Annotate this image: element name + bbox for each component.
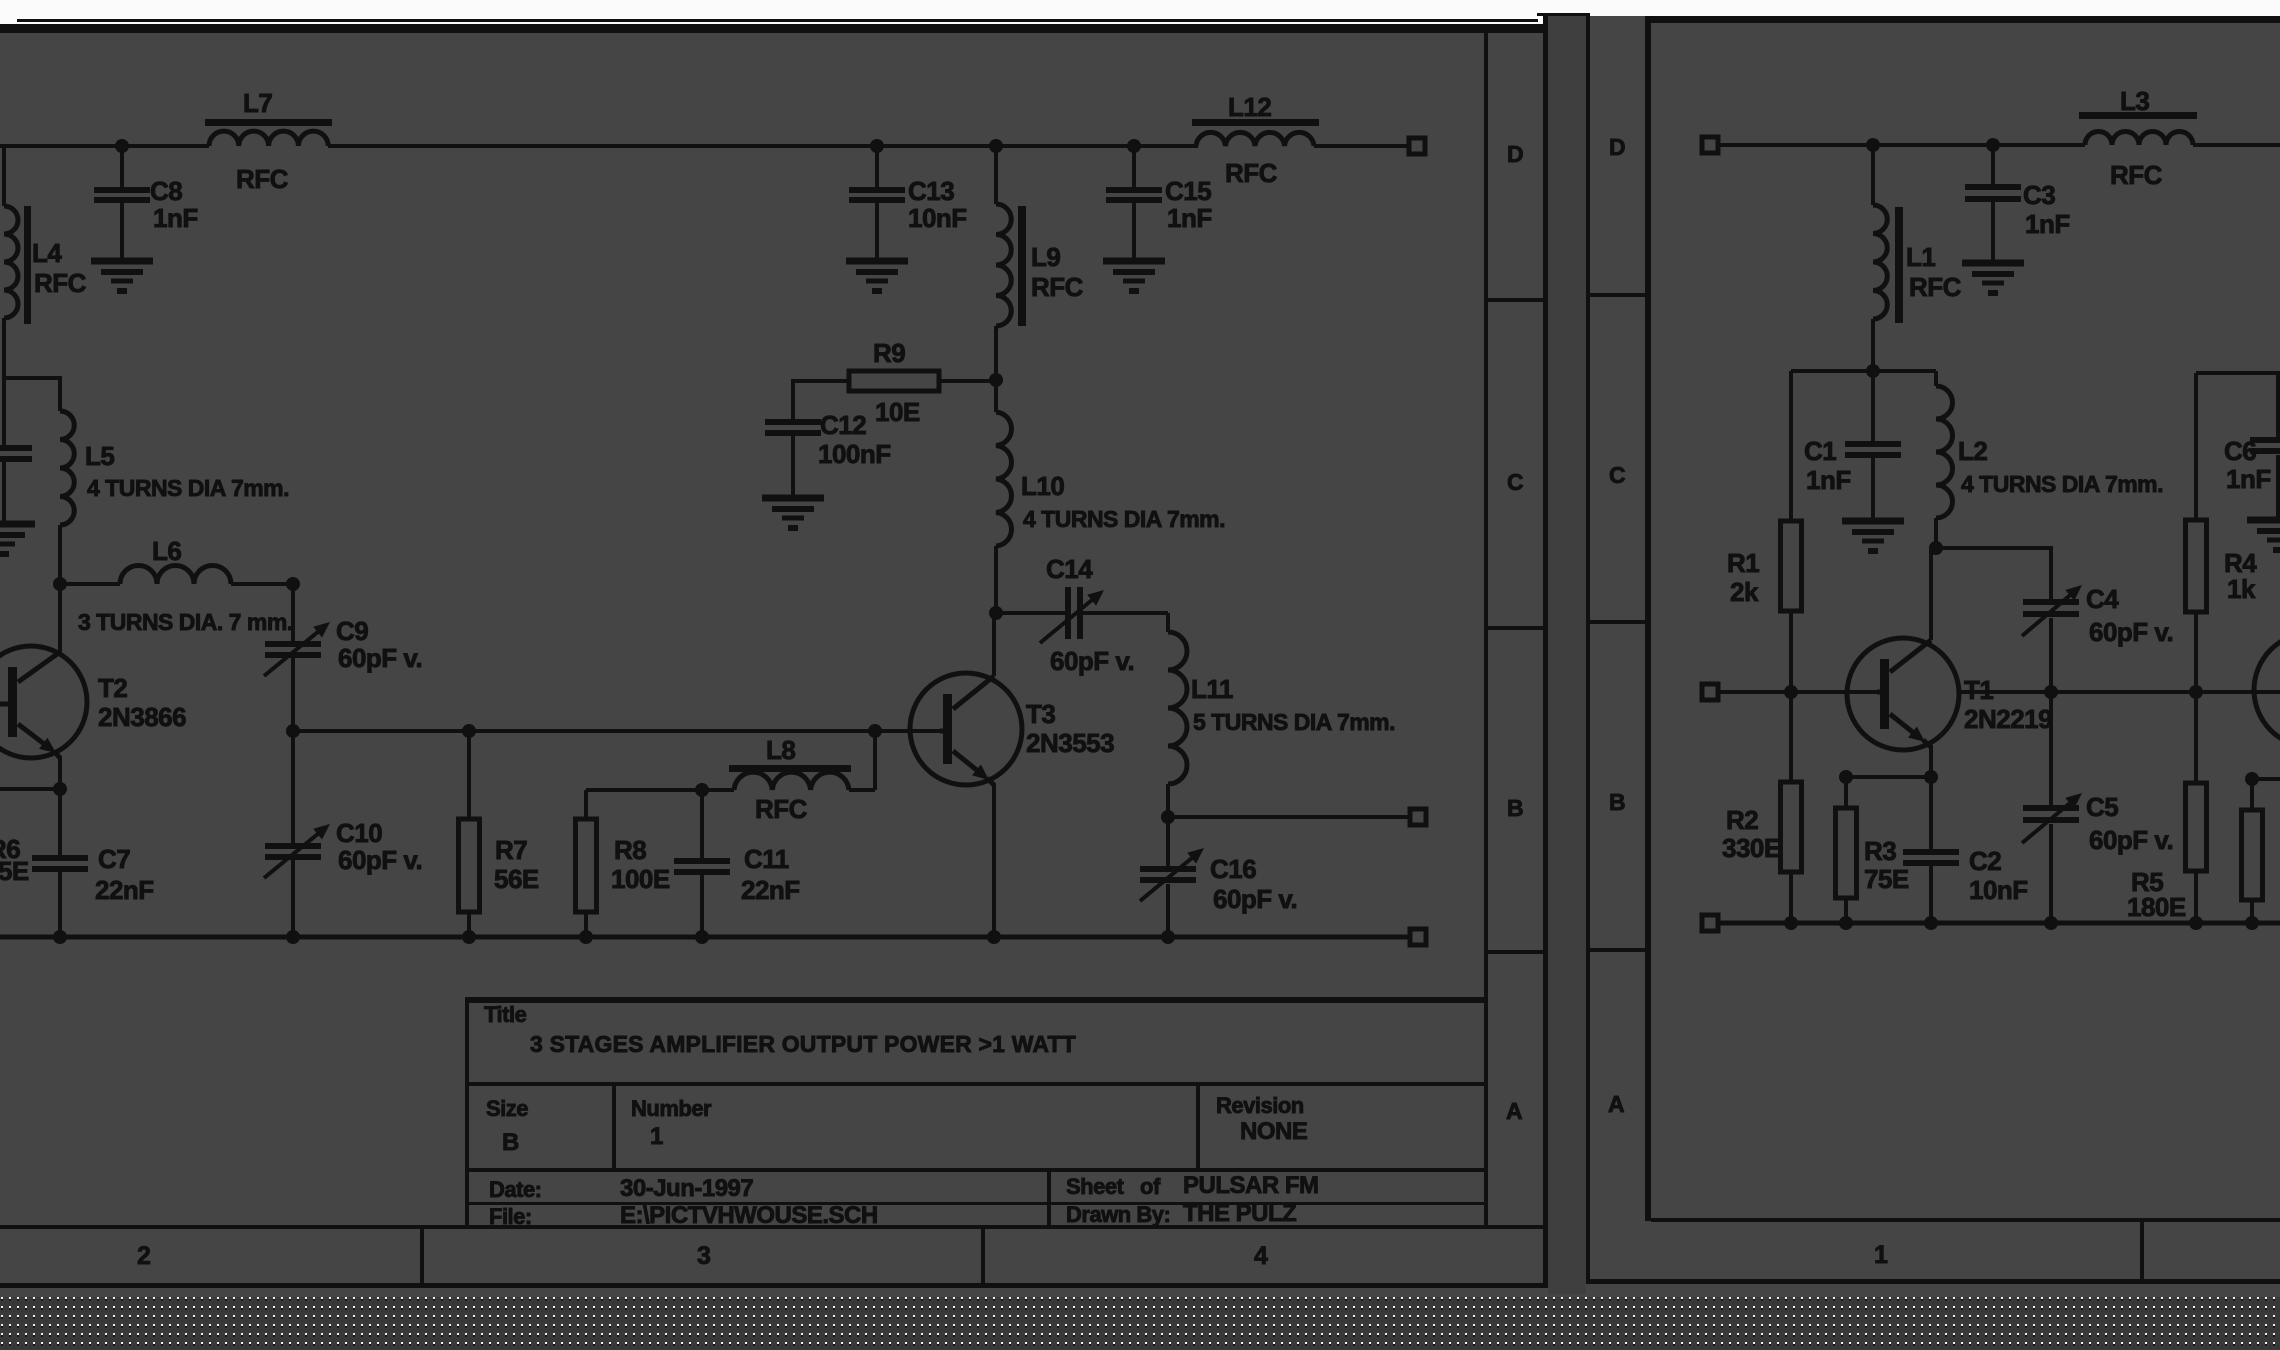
svg-text:C13: C13: [908, 176, 954, 206]
resistor R9: [793, 338, 996, 427]
svg-text:R1: R1: [1727, 548, 1759, 578]
wire emitter row: [1846, 775, 1931, 779]
inductor L8: [702, 731, 875, 824]
svg-text:D: D: [1609, 134, 1625, 160]
svg-text:C: C: [1507, 469, 1523, 495]
output terminal top right: [1409, 138, 1425, 154]
output terminal bottom right: [1410, 929, 1426, 945]
left page zone letter B: [1507, 795, 1523, 821]
paper edge line above left page: [17, 19, 1538, 22]
wire top rail left segment: [0, 144, 209, 148]
ground below C12: [762, 498, 824, 531]
svg-text:22nF: 22nF: [741, 875, 800, 905]
node junction rail-R8: [579, 930, 593, 944]
svg-text:T3: T3: [1026, 699, 1055, 729]
svg-text:3 TURNS DIA. 7 mm.: 3 TURNS DIA. 7 mm.: [78, 609, 293, 635]
right page bottom outer border: [1586, 1279, 2280, 1284]
inter-page gap top line: [1537, 13, 1590, 16]
input terminal bottom left: [1702, 915, 1718, 931]
capacitor C6 (cut): [2224, 373, 2280, 520]
svg-text:180E: 180E: [2127, 892, 2186, 922]
wire L2 to C4: [1931, 546, 2051, 600]
svg-text:Revision: Revision: [1216, 1093, 1304, 1118]
ground below C6 (cut): [2247, 520, 2280, 553]
wire right page bottom rail: [1718, 921, 2280, 926]
svg-text:2N3866: 2N3866: [98, 702, 186, 732]
svg-text:R9: R9: [873, 338, 905, 368]
svg-text:of: of: [1140, 1174, 1161, 1199]
svg-text:L2: L2: [1958, 436, 1987, 466]
node junction L9-R9-L10: [989, 373, 1003, 387]
svg-text:22nF: 22nF: [95, 875, 154, 905]
wire L4 to L5: [4, 376, 62, 380]
svg-text:L9: L9: [1031, 242, 1060, 272]
node junction rail-C11: [695, 930, 709, 944]
output terminal middle right: [1410, 809, 1426, 825]
svg-text:Number: Number: [631, 1096, 712, 1121]
svg-text:L3: L3: [2120, 86, 2149, 116]
variable capacitor C16: [1140, 817, 1297, 937]
node junction rail-C13: [870, 139, 884, 153]
right page zone letter C: [1609, 462, 1625, 488]
wire T1 base row: [1718, 690, 1877, 694]
svg-text:1: 1: [1874, 1241, 1888, 1269]
svg-text:R3: R3: [1864, 836, 1896, 866]
variable capacitor C5: [2022, 692, 2173, 923]
svg-text:60pF v.: 60pF v.: [1213, 884, 1297, 914]
left page bottom margin number 2: [137, 1242, 150, 1270]
title block revision value NONE: [1240, 1118, 1308, 1145]
svg-text:1nF: 1nF: [1806, 465, 1851, 495]
svg-text:100E: 100E: [611, 864, 670, 894]
svg-text:R2: R2: [1726, 805, 1758, 835]
right page zone letter B: [1609, 789, 1625, 815]
capacitor C1: [1804, 371, 1901, 521]
left page zone letter A: [1506, 1098, 1522, 1124]
node junction rail-C16: [1161, 930, 1175, 944]
node junction base-R7: [462, 724, 476, 738]
white paper edge strip at top: [0, 0, 2280, 16]
capacitor C13: [849, 146, 967, 261]
node junction rail-R3: [1839, 916, 1853, 930]
right page bottom margin top line: [1651, 1218, 2280, 1222]
node junction rail-C3: [1986, 138, 2000, 152]
right page inner frame left border: [1645, 16, 1651, 1221]
svg-text:L10: L10: [1021, 471, 1064, 501]
variable capacitor C10: [264, 731, 422, 937]
input terminal top left: [1702, 137, 1718, 153]
node junction rail-R5: [2189, 916, 2203, 930]
svg-text:C16: C16: [1210, 854, 1256, 884]
svg-text:60pF v.: 60pF v.: [2089, 825, 2173, 855]
right page bottom margin number 1: [1874, 1241, 1888, 1269]
wire next stage emitter row: [2246, 777, 2280, 781]
inductor L10: [996, 380, 1225, 613]
ground below left edge capacitor: [0, 524, 35, 557]
svg-text:30-Jun-1997: 30-Jun-1997: [620, 1175, 753, 1202]
node junction L5-L6-T2 collector: [53, 577, 67, 591]
node junction L6-C9: [286, 577, 300, 591]
svg-text:C7: C7: [98, 844, 130, 874]
variable capacitor C9: [264, 584, 422, 731]
node junction R3-emitter wire: [1839, 770, 1853, 784]
node junction L1-C1-L2: [1866, 364, 1880, 378]
svg-text:56E: 56E: [494, 864, 539, 894]
svg-text:THE PULZ: THE PULZ: [1183, 1200, 1296, 1227]
svg-text:3: 3: [697, 1242, 710, 1270]
title block frame: [465, 997, 1488, 1227]
node junction rail-C10: [286, 930, 300, 944]
inductor L12: [1192, 92, 1319, 188]
inductor L1: [1873, 145, 1962, 371]
svg-text:C6: C6: [2224, 436, 2256, 466]
svg-text:1nF: 1nF: [2226, 464, 2271, 494]
svg-text:E:\PICTVHWOUSE.SCH: E:\PICTVHWOUSE.SCH: [620, 1202, 878, 1229]
ground below C13: [846, 261, 908, 294]
title block label Sheet of: [1066, 1174, 1161, 1199]
title block sheet value PULSAR FM: [1183, 1172, 1319, 1199]
wire T2 emitter row: [0, 787, 60, 791]
resistor R5: [2127, 692, 2207, 923]
inductor L3: [2079, 86, 2197, 190]
title block file value: [620, 1202, 878, 1229]
wire output row upper: [1168, 815, 1409, 819]
svg-text:Drawn By:: Drawn By:: [1066, 1202, 1170, 1227]
inter-page gap shading: [1548, 14, 1586, 1294]
node junction emitter-C2: [1924, 770, 1938, 784]
svg-text:1nF: 1nF: [2025, 209, 2070, 239]
svg-text:10E: 10E: [875, 397, 920, 427]
svg-text:RFC: RFC: [1031, 272, 1084, 302]
right page zone divider D/C: [1590, 293, 1645, 297]
resistor R1: [1727, 371, 1802, 692]
svg-text:C14: C14: [1046, 554, 1093, 584]
inductor L5: [60, 378, 289, 584]
svg-text:RFC: RFC: [236, 164, 289, 194]
left page bottom margin number 3: [697, 1242, 710, 1270]
right page zone divider C/B: [1590, 620, 1645, 624]
wire T3 base row: [293, 729, 940, 733]
svg-text:15E: 15E: [0, 856, 29, 886]
svg-text:PULSAR FM: PULSAR FM: [1183, 1172, 1319, 1199]
svg-text:C1: C1: [1804, 436, 1836, 466]
svg-text:4: 4: [1254, 1242, 1268, 1270]
capacitor at left edge (cut): [0, 378, 32, 524]
title block label File: [489, 1204, 532, 1229]
svg-text:C5: C5: [2086, 792, 2118, 822]
svg-text:D: D: [1507, 141, 1523, 167]
node junction collector-R4-R5: [2189, 685, 2203, 699]
inductor L11: [1168, 613, 1395, 817]
left page zone divider B/A: [1488, 950, 1543, 954]
svg-text:C9: C9: [336, 616, 368, 646]
svg-text:2N2219: 2N2219: [1964, 704, 2052, 734]
svg-text:NONE: NONE: [1240, 1118, 1308, 1145]
inductor L6: [60, 536, 293, 635]
svg-text:R8: R8: [614, 835, 646, 865]
svg-text:Size: Size: [486, 1096, 528, 1121]
left page bottom outer border: [0, 1283, 1548, 1288]
left page bottom margin divider 3/4: [981, 1225, 985, 1285]
right page zone letter A: [1608, 1091, 1624, 1117]
svg-text:3 STAGES AMPLIFIER OUTPUT POWE: 3 STAGES AMPLIFIER OUTPUT POWER >1 WATT: [530, 1031, 1076, 1057]
svg-text:C11: C11: [744, 844, 789, 874]
variable capacitor C14: [996, 554, 1168, 676]
title block drawn by value: [1183, 1200, 1296, 1227]
capacitor C2: [1903, 777, 2028, 923]
svg-text:C3: C3: [2023, 180, 2055, 210]
wire right page top rail right segment: [2193, 143, 2280, 147]
ground below C1: [1842, 521, 1904, 554]
svg-text:330E: 330E: [1722, 833, 1781, 863]
wire right page top rail: [1718, 143, 2085, 147]
svg-text:L11: L11: [1191, 674, 1233, 704]
capacitor C8: [94, 146, 198, 261]
svg-text:1nF: 1nF: [1167, 203, 1212, 233]
wire T1 collector row: [1959, 690, 2280, 694]
title block label Number: [631, 1096, 712, 1121]
svg-text:RFC: RFC: [1909, 272, 1962, 302]
left page zone letter D: [1507, 141, 1523, 167]
svg-text:2N3553: 2N3553: [1026, 728, 1114, 758]
capacitor C12: [765, 410, 891, 498]
left page top border bar: [0, 24, 1545, 33]
resistor R2: [1722, 692, 1802, 923]
svg-text:L8: L8: [766, 735, 795, 765]
node junction L2-C4-T1 collector: [1929, 541, 1943, 555]
wire bias row: [1791, 369, 1936, 373]
title block label Drawn By: [1066, 1202, 1170, 1227]
title block number value 1: [650, 1123, 663, 1150]
title block label Size: [486, 1096, 528, 1121]
svg-text:10nF: 10nF: [908, 203, 967, 233]
left page bottom margin divider 2/3: [420, 1225, 424, 1285]
svg-text:RFC: RFC: [1225, 158, 1278, 188]
resistor next stage (cut): [2242, 779, 2263, 923]
right page bottom margin divider: [2140, 1218, 2144, 1281]
inductor L9: [996, 204, 1084, 380]
svg-text:A: A: [1506, 1098, 1522, 1124]
title block title text: [530, 1031, 1076, 1057]
wire L9 column: [994, 146, 998, 204]
title block size value B: [502, 1129, 519, 1156]
svg-text:C15: C15: [1165, 176, 1211, 206]
svg-text:RFC: RFC: [755, 794, 808, 824]
svg-text:Title: Title: [484, 1002, 527, 1027]
svg-text:R7: R7: [495, 835, 527, 865]
title block label Date: [489, 1177, 542, 1202]
node junction rail-C15: [1127, 139, 1141, 153]
transistor T2 2N3866: [0, 586, 186, 789]
svg-text:L4: L4: [32, 238, 62, 268]
svg-text:1: 1: [650, 1123, 663, 1150]
resistor R8: [576, 790, 703, 937]
inductor L4: [4, 146, 87, 380]
title block label Revision: [1216, 1093, 1304, 1118]
left page zone divider C/B: [1488, 626, 1543, 630]
svg-text:60pF v.: 60pF v.: [338, 845, 422, 875]
left page inner right border: [1484, 24, 1488, 1227]
capacitor C11: [674, 790, 800, 937]
svg-text:L5: L5: [85, 441, 114, 471]
svg-text:C2: C2: [1969, 846, 2001, 876]
svg-text:4 TURNS DIA 7mm.: 4 TURNS DIA 7mm.: [1023, 506, 1225, 532]
svg-text:L7: L7: [243, 88, 272, 118]
wire top rail right segment: [1314, 144, 1408, 148]
svg-text:Sheet: Sheet: [1066, 1174, 1125, 1199]
node junction rail-L9: [989, 139, 1003, 153]
left page zone divider D/C: [1488, 298, 1543, 302]
svg-text:T2: T2: [98, 673, 127, 703]
svg-text:1k: 1k: [2227, 574, 2256, 604]
node junction base-R1-R2: [1784, 685, 1798, 699]
svg-text:60pF v.: 60pF v.: [2089, 617, 2173, 647]
transistor T1 2N2219: [1847, 548, 2052, 777]
inductor L2: [1936, 371, 2163, 548]
node junction rail-R7: [462, 930, 476, 944]
svg-text:C4: C4: [2086, 584, 2119, 614]
capacitor C15: [1106, 146, 1212, 261]
resistor R7: [459, 731, 539, 937]
svg-text:C8: C8: [150, 176, 182, 206]
svg-text:B: B: [1507, 795, 1523, 821]
svg-text:2: 2: [137, 1242, 150, 1270]
node junction base-L8: [868, 724, 882, 738]
svg-text:Date:: Date:: [489, 1177, 542, 1202]
node junction rail-L1: [1866, 138, 1880, 152]
transistor (next stage, cut): [2254, 633, 2280, 747]
node junction C4-collector wire: [2044, 685, 2058, 699]
right page top border: [1645, 16, 2280, 23]
scanner background dotted strip at bottom: [0, 1297, 2280, 1350]
input terminal middle left: [1702, 684, 1718, 700]
node junction next stage emitter: [2245, 772, 2259, 786]
svg-text:100nF: 100nF: [818, 439, 891, 469]
svg-text:C12: C12: [820, 410, 866, 440]
capacitor C3: [1965, 145, 2070, 263]
wire top rail middle segment: [328, 144, 1198, 148]
svg-text:4 TURNS DIA 7mm.: 4 TURNS DIA 7mm.: [87, 475, 289, 501]
right page outer left border: [1586, 14, 1590, 1281]
resistor R3: [1836, 777, 1909, 923]
variable capacitor C4: [2022, 584, 2173, 692]
svg-text:4 TURNS DIA 7mm.: 4 TURNS DIA 7mm.: [1961, 471, 2163, 497]
transistor T3 2N3553: [910, 613, 1114, 937]
right page zone divider B/A: [1590, 948, 1645, 952]
svg-text:60pF v.: 60pF v.: [1050, 646, 1134, 676]
ground below C3: [1962, 263, 2024, 296]
node junction L10-C14-T3 collector: [989, 606, 1003, 620]
svg-text:C10: C10: [336, 818, 382, 848]
svg-text:L6: L6: [152, 536, 181, 566]
node junction C9-base wire: [286, 724, 300, 738]
node junction rail-T3 emitter: [987, 930, 1001, 944]
svg-text:1nF: 1nF: [153, 203, 198, 233]
node junction rail-next stage resistor: [2245, 916, 2259, 930]
svg-text:L1: L1: [1906, 242, 1935, 272]
svg-text:File:: File:: [489, 1204, 532, 1229]
svg-text:5 TURNS DIA 7mm.: 5 TURNS DIA 7mm.: [1193, 709, 1395, 735]
node junction L11-C16-output: [1161, 810, 1175, 824]
wire bottom rail: [0, 935, 1409, 940]
svg-text:2k: 2k: [1730, 577, 1759, 607]
svg-text:L12: L12: [1228, 92, 1271, 122]
node junction rail-R2: [1784, 916, 1798, 930]
ground below C15: [1103, 261, 1165, 294]
svg-text:RFC: RFC: [34, 268, 87, 298]
left page outer right border: [1543, 14, 1548, 1288]
svg-text:60pF v.: 60pF v.: [338, 643, 422, 673]
left page zone letter C: [1507, 469, 1523, 495]
svg-text:B: B: [502, 1129, 519, 1156]
node junction rail-C2: [1924, 916, 1938, 930]
right page zone letter D: [1609, 134, 1625, 160]
svg-text:75E: 75E: [1864, 864, 1909, 894]
resistor R4: [2186, 373, 2280, 692]
svg-text:C: C: [1609, 462, 1625, 488]
node junction T2 emitter-C7: [53, 782, 67, 796]
left page bottom margin top line: [0, 1225, 1545, 1229]
title block date value: [620, 1175, 753, 1202]
node junction R8-C11-L8: [695, 783, 709, 797]
capacitor C7: [32, 789, 154, 937]
svg-text:10nF: 10nF: [1969, 875, 2028, 905]
resistor R6 labels (cut at edge): [0, 834, 29, 886]
svg-text:RFC: RFC: [2110, 160, 2163, 190]
svg-text:B: B: [1609, 789, 1625, 815]
ground below C8: [91, 261, 153, 294]
node junction rail-C5: [2044, 916, 2058, 930]
svg-text:A: A: [1608, 1091, 1624, 1117]
node junction rail-C8: [115, 139, 129, 153]
left page bottom margin number 4: [1254, 1242, 1268, 1270]
node junction rail-C7: [53, 930, 67, 944]
inductor L7: [205, 88, 332, 194]
title block label Title: [484, 1002, 527, 1027]
